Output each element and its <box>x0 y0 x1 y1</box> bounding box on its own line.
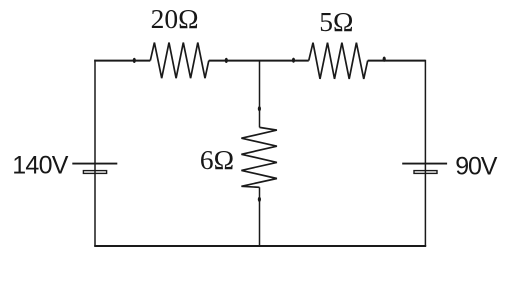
svg-text:90V: 90V <box>455 153 497 181</box>
junction dot right of 20-ohm <box>225 58 228 63</box>
battery V2 short plate <box>414 171 437 174</box>
wire middle vertical lower <box>259 187 261 246</box>
resistor 5-ohm zigzag <box>309 43 368 79</box>
wire middle vertical upper <box>259 61 261 128</box>
wire top-middle segment <box>209 60 309 62</box>
junction dot right of 5-ohm <box>383 57 386 62</box>
junction dot top of 6-ohm branch <box>258 106 261 111</box>
battery V1 short plate <box>83 171 106 174</box>
junction dot left of 20-ohm <box>133 58 136 63</box>
wire top-right segment <box>368 60 426 62</box>
wire left vertical <box>94 60 96 246</box>
svg-text:5Ω: 5Ω <box>319 6 353 37</box>
junction dot left of 5-ohm <box>292 58 295 63</box>
junction dot bottom of 6-ohm branch <box>258 197 261 202</box>
resistor 6-ohm zigzag <box>241 127 277 187</box>
battery V1 long plate <box>72 163 117 165</box>
wire bottom <box>94 245 426 247</box>
svg-text:6Ω: 6Ω <box>200 144 234 175</box>
resistor 20-ohm zigzag <box>150 43 209 79</box>
battery V2 long plate <box>402 163 447 165</box>
svg-text:20Ω: 20Ω <box>151 3 199 34</box>
wire right vertical <box>424 60 426 246</box>
wire top-left segment <box>94 60 150 62</box>
svg-text:140V: 140V <box>12 151 69 179</box>
